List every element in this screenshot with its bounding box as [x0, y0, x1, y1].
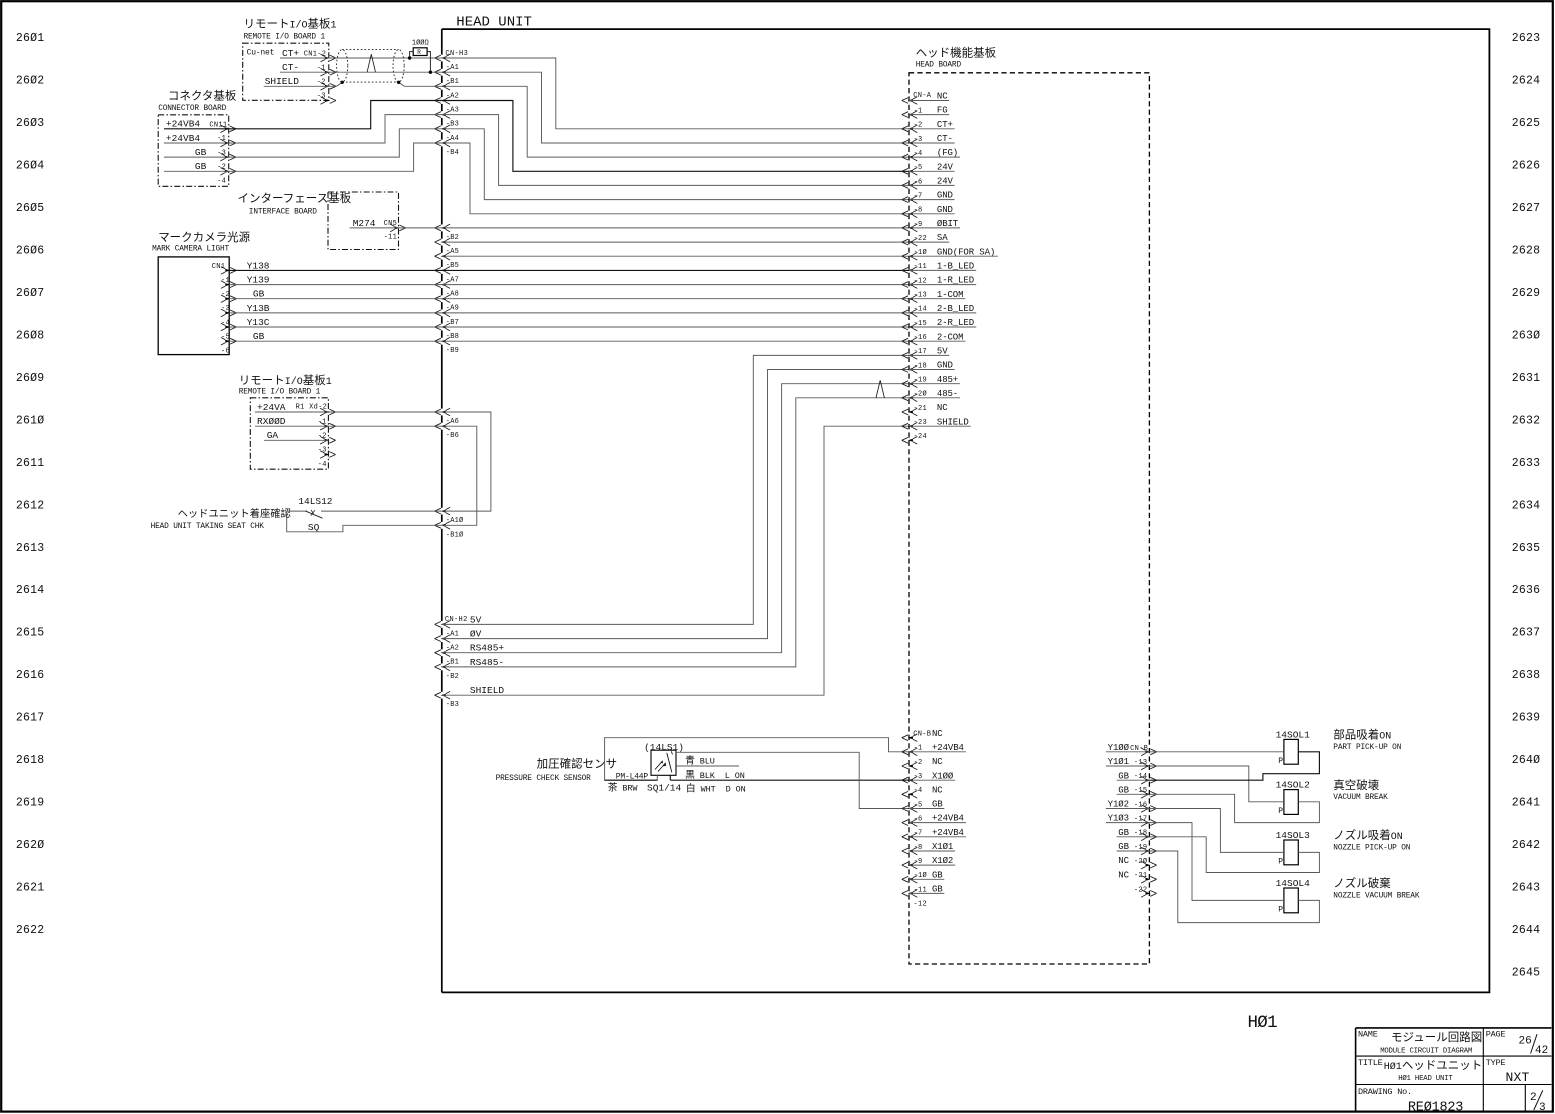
svg-text:REMOTE I/O BOARD 1: REMOTE I/O BOARD 1 [244, 34, 326, 42]
svg-text:-5: -5 [221, 333, 230, 341]
svg-text:CN1: CN1 [212, 263, 226, 271]
svg-text:Y13B: Y13B [247, 303, 270, 314]
net Y13B label (camera pin 4) [247, 303, 270, 314]
net GB label (CN-B pin -19) [1117, 828, 1150, 838]
svg-text:PAGE: PAGE [1486, 1030, 1506, 1040]
svg-text:-1: -1 [317, 64, 326, 72]
svg-text:2624: 2624 [1512, 75, 1540, 88]
svg-text:2615: 2615 [16, 627, 44, 640]
svg-text:-A8: -A8 [446, 291, 459, 299]
svg-text:-A1: -A1 [446, 630, 459, 638]
net 24V label (CN-A pin -7) [909, 177, 955, 187]
svg-text:2632: 2632 [1512, 414, 1540, 427]
title block NAME cell [1358, 1030, 1482, 1056]
wire Y139 camera to head unit edge [229, 284, 442, 286]
connector CN11 pins [220, 125, 236, 175]
net GB label (camera pin 3) [253, 289, 265, 300]
board: remote I/O board 1 (top) title [244, 17, 337, 42]
net GB label (CN-B pin -20) [1117, 842, 1150, 852]
wire Y101 feed to 14SOL2 [1149, 766, 1284, 802]
net NC label (CN-A pin -23) [937, 403, 948, 413]
net NC label (CN-B pin -5) [932, 785, 943, 795]
svg-text:2641: 2641 [1512, 797, 1540, 810]
wire camera row to CN-A 1-B_LED [442, 269, 909, 271]
svg-text:-A2: -A2 [446, 92, 459, 100]
svg-text:-3: -3 [317, 93, 326, 101]
svg-text:PRESSURE CHECK SENSOR: PRESSURE CHECK SENSOR [496, 775, 592, 783]
wire sensor white/common to CN-B -5 GB [676, 752, 909, 808]
svg-text:-18: -18 [1134, 830, 1148, 838]
svg-text:-B1: -B1 [446, 659, 459, 667]
wire B5 to GND(FOR SA) [442, 255, 909, 257]
net CT- label [282, 62, 299, 73]
net Y103 label (CN-B pin -18) [1106, 814, 1150, 824]
svg-text:-9: -9 [914, 858, 923, 866]
svg-text:-7: -7 [914, 830, 923, 838]
svg-text:ヘッドユニット着座確認: ヘッドユニット着座確認 [178, 507, 291, 520]
wire camera row to CN-A 1-COM [442, 298, 909, 300]
head unit left edge (segmented at pins) [441, 29, 443, 992]
svg-text:2613: 2613 [16, 542, 44, 555]
net NC label (CN-A pin -1) [909, 92, 949, 102]
svg-text:-5: -5 [914, 801, 923, 809]
svg-text:14SOL2: 14SOL2 [1276, 780, 1311, 791]
wire CT- (CN1-2 to CN-H3 A1) [280, 71, 442, 73]
svg-text:-24: -24 [914, 433, 928, 441]
remote I/O board 1 lower outline (dash-dot) [250, 398, 328, 469]
svg-text:CT+: CT+ [282, 48, 299, 59]
net CT- label (CN-A pin -4) [909, 134, 955, 144]
svg-text:3: 3 [1539, 1102, 1546, 1114]
wire RX00D to CN-H3 B6 [255, 425, 442, 427]
svg-text:-19: -19 [914, 377, 928, 385]
net GND label (CN-A pin -19) [909, 361, 955, 371]
svg-text:ØV: ØV [470, 629, 482, 640]
svg-text:モジュール回路図: モジュール回路図 [1391, 1030, 1482, 1044]
svg-text:DRAWING No.: DRAWING No. [1358, 1087, 1412, 1097]
solenoid valve 14SOL4 [1276, 878, 1311, 914]
net 2-B_LED label (CN-A pin -15) [909, 304, 976, 314]
title block DRAWING No cell [1358, 1087, 1463, 1114]
svg-text:2619: 2619 [16, 797, 44, 810]
switch 14LS12 blade (open contact) [306, 510, 323, 518]
svg-text:-B1: -B1 [446, 78, 459, 86]
svg-text:+24VB4: +24VB4 [166, 133, 201, 144]
svg-text:-1: -1 [318, 418, 327, 426]
svg-text:NAME: NAME [1358, 1030, 1378, 1040]
net RX00D label [257, 416, 286, 427]
net X100 label (CN-B pin -4) [909, 771, 955, 781]
svg-text:261Ø: 261Ø [16, 414, 44, 427]
connector CN1 pins [221, 267, 237, 345]
wire CN-H3 row -B1 to head board row (step at x=541.5) [442, 72, 909, 143]
svg-text:2637: 2637 [1512, 627, 1540, 640]
svg-text:RS485+: RS485+ [470, 643, 505, 654]
svg-text:2629: 2629 [1512, 287, 1540, 300]
svg-text:-3: -3 [318, 447, 327, 455]
svg-text:14LS12: 14LS12 [298, 496, 333, 507]
svg-text:-3: -3 [914, 773, 923, 781]
connector CN1-2 labels [304, 51, 327, 101]
svg-text:-A1: -A1 [446, 64, 459, 72]
wire +24VB4 pin1 to CN-H3 A2 [164, 101, 442, 129]
label HEAD UNIT [456, 14, 532, 30]
svg-text:42: 42 [1535, 1045, 1548, 1057]
head board outline (dashed) [909, 73, 1149, 964]
svg-text:GB: GB [253, 331, 265, 342]
wire GB camera to head unit edge [229, 298, 442, 300]
svg-text:-22: -22 [1134, 886, 1148, 894]
svg-text:26Ø9: 26Ø9 [16, 372, 44, 385]
sensor PM-L44P designator [616, 772, 649, 781]
title block table [1356, 1028, 1552, 1112]
label brown wire [608, 780, 639, 793]
svg-text:Cu-net: Cu-net [247, 49, 275, 58]
wire RS485+ CN-H2 to CN-A [442, 384, 909, 653]
net (FG) label (CN-A pin -5) [909, 148, 960, 158]
svg-text:PART PICK-UP ON: PART PICK-UP ON [1333, 744, 1401, 752]
connector CN-A name label [913, 92, 932, 100]
wire sensor output black (BLK) X100 to CN-B -3 [605, 775, 909, 780]
wire Y138 camera to head unit edge [229, 269, 442, 271]
svg-text:CN5: CN5 [384, 220, 398, 228]
connector CN-A pin chevrons [902, 97, 918, 444]
svg-text:-5: -5 [914, 164, 923, 172]
svg-text:2: 2 [1530, 1092, 1537, 1104]
net SA label (CN-A pin -10) [909, 233, 949, 243]
svg-text:26: 26 [1519, 1036, 1532, 1048]
svg-text:-2Ø: -2Ø [914, 390, 928, 399]
wire SHIELD left segment [264, 82, 343, 86]
svg-text:NC: NC [1118, 856, 1129, 866]
net SHIELD label at CN-H2 [470, 685, 505, 696]
svg-text:-4: -4 [318, 461, 327, 469]
wire GB pin2 to CN-H3 B3 [164, 129, 442, 157]
svg-text:-4: -4 [221, 319, 230, 327]
net 1-B_LED label (CN-A pin -12) [909, 262, 976, 272]
svg-text:-B9: -B9 [446, 347, 459, 355]
svg-text:-6: -6 [914, 816, 923, 824]
wire camera row to CN-A 1-R_LED [442, 284, 909, 286]
svg-text:26Ø5: 26Ø5 [16, 202, 44, 215]
svg-text:-4: -4 [217, 178, 226, 186]
net NC label (CN-B pin -3) [932, 757, 943, 767]
svg-text:-B6: -B6 [446, 432, 459, 440]
svg-text:-2: -2 [317, 79, 326, 87]
svg-text:26Ø8: 26Ø8 [16, 329, 44, 342]
wire Y100 feed to 14SOL1 [1149, 751, 1284, 753]
connector CN5 labels [384, 220, 398, 242]
net Y139 label (camera pin 2) [247, 275, 270, 286]
svg-text:2644: 2644 [1512, 924, 1540, 937]
net FG label (CN-A pin -2) [909, 106, 949, 116]
wire ØV CN-H2 to CN-A [442, 370, 909, 639]
head unit edge pin chevrons CN-H3/CN-H2 [435, 54, 451, 699]
svg-text:2612: 2612 [16, 499, 44, 512]
connector CN1 labels [212, 263, 230, 356]
svg-text:26Ø4: 26Ø4 [16, 159, 44, 172]
svg-text:-14: -14 [914, 306, 928, 314]
svg-text:-A5: -A5 [446, 248, 459, 256]
net +24VB4 label (CN-B pin -2) [909, 743, 966, 753]
wire Y13C camera to head unit edge [229, 326, 442, 328]
connector CN-B name label (left) [913, 731, 931, 739]
resistor R 100ohm terminating Cu-net [408, 39, 432, 74]
board: connector board title [158, 89, 237, 113]
connector CN-B left pin numbers [914, 745, 928, 909]
svg-text:1ØØΩ: 1ØØΩ [412, 39, 429, 48]
wire 5V CN-H2 to CN-A [442, 355, 909, 624]
wire M274 to CN-H3 B2 [350, 227, 442, 229]
label Cu-net [247, 49, 275, 58]
svg-text:+24VA: +24VA [257, 402, 286, 413]
svg-text:CN11: CN11 [209, 121, 227, 129]
svg-text:14SOL3: 14SOL3 [1276, 830, 1311, 841]
svg-text:HØ1: HØ1 [1248, 1013, 1278, 1033]
svg-text:-4: -4 [914, 787, 923, 795]
svg-text:Y138: Y138 [247, 260, 270, 271]
svg-text:2623: 2623 [1512, 32, 1540, 45]
svg-text:R1 Xd-2: R1 Xd-2 [296, 404, 328, 412]
svg-text:-11: -11 [914, 263, 928, 271]
title block TYPE cell [1486, 1058, 1530, 1085]
net Y101 label (CN-B pin -14) [1106, 757, 1150, 767]
svg-text:M274: M274 [353, 218, 376, 229]
svg-text:P: P [1278, 857, 1283, 866]
svg-text:HØ1ヘッドユニット: HØ1ヘッドユニット [1384, 1060, 1483, 1073]
net GB label (CN-B pin -11) [909, 870, 944, 880]
svg-text:-2: -2 [318, 433, 327, 441]
svg-text:GB: GB [195, 147, 207, 158]
svg-text:GB: GB [253, 289, 265, 300]
svg-text:2627: 2627 [1512, 202, 1540, 215]
svg-text:-A3: -A3 [446, 107, 459, 115]
svg-text:NC: NC [937, 403, 948, 413]
connector CN-H2 name label [445, 616, 468, 624]
svg-text:R: R [417, 49, 421, 56]
svg-text:インターフェース基板: インターフェース基板 [238, 191, 352, 205]
svg-text:-B3: -B3 [446, 121, 459, 129]
svg-text:-11: -11 [384, 234, 398, 242]
connector CN-B left pin chevrons [902, 734, 918, 897]
svg-text:-A4: -A4 [446, 135, 459, 143]
svg-text:-15: -15 [1134, 787, 1148, 795]
cable shield envelope (dotted) [337, 50, 405, 83]
svg-text:-1: -1 [217, 135, 226, 143]
svg-text:VACUUM BREAK: VACUUM BREAK [1333, 794, 1388, 802]
svg-text:-2: -2 [217, 164, 226, 172]
svg-text:-13: -13 [1134, 759, 1148, 767]
connector CN-B right pin numbers [1134, 759, 1148, 895]
solenoid valve 14SOL1 [1276, 729, 1311, 765]
svg-text:Y139: Y139 [247, 275, 270, 286]
interface board outline (dash-dot) [328, 192, 399, 250]
label white wire D ON [686, 782, 746, 795]
connector board outline (dash-dot) [158, 115, 229, 187]
wire GB camera to head unit edge [229, 340, 442, 342]
svg-text:NC: NC [932, 757, 943, 767]
wire GA stub [264, 439, 328, 441]
sensor 14LS1 designator [644, 742, 684, 753]
wire Y102 feed to 14SOL3 [1149, 809, 1284, 853]
svg-text:-15: -15 [914, 320, 928, 328]
sensor SQ1/14 designator [647, 783, 682, 794]
connector CN-B name label (right) [1130, 745, 1148, 753]
net GB label (pin 4) [195, 161, 207, 172]
net NC label (CN-B pin -22) [1118, 870, 1129, 880]
net 485- label (CN-A pin -21) [909, 389, 960, 399]
label: pressure check sensor [496, 757, 617, 783]
label NOZZLE VACUUM BREAK [1333, 876, 1420, 900]
connector R1 Xd-2 labels [296, 404, 328, 469]
connector CN11 labels [209, 121, 227, 185]
svg-text:-16: -16 [914, 334, 928, 342]
wire camera row to CN-A 2-COM [442, 340, 909, 342]
svg-text:-2: -2 [221, 291, 230, 299]
svg-text:-17: -17 [914, 348, 928, 356]
svg-text:MARK CAMERA LIGHT: MARK CAMERA LIGHT [152, 245, 229, 253]
solenoid valve 14SOL2 [1276, 780, 1311, 816]
net +24VB4 label (CN-B pin -7) [909, 814, 966, 824]
svg-text:-B4: -B4 [446, 149, 459, 157]
svg-text:-16: -16 [1134, 801, 1148, 809]
board: interface board title [238, 191, 352, 216]
svg-text:MODULE CIRCUIT DIAGRAM: MODULE CIRCUIT DIAGRAM [1380, 1047, 1472, 1055]
svg-text:CT-: CT- [282, 62, 299, 73]
net 1-COM label (CN-A pin -14) [909, 290, 965, 300]
svg-text:-12: -12 [914, 277, 928, 285]
svg-text:HØ1 HEAD UNIT: HØ1 HEAD UNIT [1398, 1074, 1453, 1083]
svg-text:-9: -9 [914, 221, 923, 229]
net +24VB4 label (pin 3) [166, 133, 201, 144]
switch SQ designator [308, 522, 320, 533]
wire CN-H3 row -B4 to head board row (step at x=470.0) [442, 143, 909, 214]
svg-text:CN-A: CN-A [913, 92, 932, 100]
svg-text:NOZZLE PICK-UP ON: NOZZLE PICK-UP ON [1333, 845, 1410, 853]
net 485+ label (CN-A pin -20) [909, 375, 960, 385]
wire B2 to 0BIT [442, 227, 909, 229]
svg-text:2618: 2618 [16, 754, 44, 767]
svg-text:-1Ø: -1Ø [914, 871, 928, 880]
svg-text:-B7: -B7 [446, 319, 459, 327]
net GB label (CN-B pin -12) [909, 885, 944, 895]
net 24V label (CN-A pin -6) [909, 162, 955, 172]
svg-text:26Ø1: 26Ø1 [16, 32, 44, 45]
net X101 label (CN-B pin -9) [909, 842, 955, 852]
svg-text:-21: -21 [1134, 872, 1148, 880]
label: head unit taking seat check [151, 507, 291, 531]
wire +24VB4 pin3 to CN-H3 A3 [164, 115, 442, 143]
svg-text:-21: -21 [914, 405, 928, 413]
solenoid valve 14SOL3 [1276, 830, 1311, 866]
wire GB return from 14SOL2 [1149, 794, 1319, 822]
net 0BIT label (CN-A pin -22) [909, 219, 960, 229]
remote I/O board 1 outline (dash-dot) [243, 43, 329, 100]
svg-text:14SOL4: 14SOL4 [1276, 878, 1311, 889]
net 2-R_LED label (CN-A pin -16) [909, 318, 976, 328]
svg-text:P: P [1278, 905, 1283, 914]
svg-text:ノズル破棄: ノズル破棄 [1333, 876, 1391, 890]
svg-text:REMOTE I/O BOARD 1: REMOTE I/O BOARD 1 [239, 389, 321, 397]
connector CN-A pin numbers [914, 108, 928, 442]
svg-text:-7: -7 [914, 192, 923, 200]
svg-text:-8: -8 [914, 844, 923, 852]
svg-text:2614: 2614 [16, 584, 44, 597]
svg-text:SQ1/14: SQ1/14 [647, 783, 682, 794]
net 1-R_LED label (CN-A pin -13) [909, 276, 976, 286]
svg-text:-A7: -A7 [446, 276, 459, 284]
mark camera light outline [158, 257, 229, 355]
net Y102 label (CN-B pin -17) [1106, 800, 1150, 810]
title block PAGE cell [1486, 1030, 1549, 1058]
label PART PICK-UP ON [1333, 728, 1401, 752]
wire SHIELD CN-H2 to CN-A [442, 426, 909, 695]
svg-text:-3: -3 [217, 149, 226, 157]
svg-text:-6: -6 [914, 178, 923, 186]
svg-text:-23: -23 [914, 419, 928, 427]
shield junction dots [341, 81, 401, 84]
connector CN5 pin [390, 224, 406, 232]
net GB label (CN-B pin -15) [1117, 771, 1150, 781]
label VACUUM BREAK [1333, 778, 1388, 802]
net +24VB4 label (pin 1) [166, 119, 201, 130]
svg-text:-B3: -B3 [446, 701, 459, 709]
svg-text:HEAD UNIT TAKING SEAT CHK: HEAD UNIT TAKING SEAT CHK [151, 523, 265, 531]
svg-text:GB: GB [195, 161, 207, 172]
wire camera row to CN-A 2-B_LED [442, 312, 909, 314]
svg-text:黒 BLK L ON: 黒 BLK L ON [685, 769, 745, 781]
svg-text:-19: -19 [1134, 844, 1148, 852]
title block TITLE cell [1358, 1058, 1482, 1083]
svg-text:-6: -6 [221, 348, 230, 356]
svg-text:-2Ø: -2Ø [1134, 857, 1148, 866]
svg-text:2638: 2638 [1512, 669, 1540, 682]
svg-text:CN-H3: CN-H3 [445, 50, 468, 58]
net +24VB4 label (CN-B pin -8) [909, 828, 966, 838]
wire GB return from 14SOL4 [1149, 851, 1319, 923]
svg-text:2622: 2622 [16, 924, 44, 937]
svg-text:-2: -2 [914, 759, 923, 767]
svg-text:2642: 2642 [1512, 839, 1540, 852]
label NOZZLE PICK-UP ON [1333, 828, 1410, 852]
svg-text:-1: -1 [914, 745, 923, 753]
wire CN-H3 row -A4 to head board row (step at x=484.3) [442, 129, 909, 200]
svg-text:HEAD BOARD: HEAD BOARD [916, 62, 962, 70]
net Y13C label (camera pin 5) [247, 317, 270, 328]
board: remote I/O board 1 (lower) title [239, 373, 332, 397]
wire SHIELD right segment [399, 82, 442, 86]
svg-text:264Ø: 264Ø [1512, 754, 1540, 767]
svg-text:-22: -22 [914, 235, 928, 243]
net GND label (CN-A pin -9) [909, 205, 955, 215]
net GB label (CN-B pin -16) [1117, 785, 1150, 795]
svg-text:SHIELD: SHIELD [265, 76, 300, 87]
svg-text:2617: 2617 [16, 712, 44, 725]
head unit boundary box (top, right, bottom edges) [442, 29, 1490, 992]
svg-text:-8: -8 [914, 207, 923, 215]
svg-text:NC: NC [932, 785, 943, 795]
svg-text:P: P [1278, 807, 1283, 816]
svg-text:2633: 2633 [1512, 457, 1540, 470]
svg-text:TYPE: TYPE [1486, 1058, 1506, 1068]
twisted pair twist symbol (Cu-net) [367, 54, 375, 72]
board: mark camera light title [152, 230, 251, 253]
svg-text:2631: 2631 [1512, 372, 1540, 385]
svg-text:2621: 2621 [16, 882, 44, 895]
svg-text:RS485-: RS485- [470, 657, 504, 668]
svg-text:2636: 2636 [1512, 584, 1540, 597]
svg-text:ヘッド機能基板: ヘッド機能基板 [916, 46, 997, 60]
